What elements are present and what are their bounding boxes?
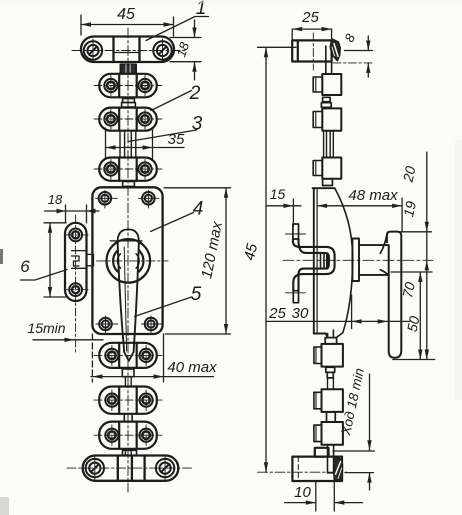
keeper plate: [65, 223, 87, 301]
guide block G4: [99, 343, 157, 368]
lock body plate: [92, 187, 162, 334]
svg-text:3: 3: [192, 114, 203, 135]
G1 centerline: [94, 76, 162, 96]
dimension 18 (top plate height): [170, 20, 201, 80]
G3 right screw: [138, 162, 151, 175]
top plate side view: [292, 40, 331, 61]
dimension 19 20 (handle height above axis): [397, 152, 432, 360]
dimension 18 (keeper width): [45, 192, 100, 223]
svg-text:20: 20: [399, 164, 418, 184]
bottom plate side centerline: [258, 471, 348, 473]
main horizontal centerline of pivot: [283, 259, 433, 261]
svg-text:18: 18: [48, 192, 63, 207]
keeper top screw: [69, 229, 82, 242]
G3 left screw: [104, 162, 117, 175]
connector body to B4: [325, 330, 336, 344]
body screw bottom-left: [96, 316, 118, 333]
dimension 40 max (body width): [91, 334, 217, 382]
rod hook at bottom (bent end): [334, 457, 343, 481]
keeper latch detail: [72, 251, 94, 269]
body screw top-left: [96, 191, 118, 209]
dimension 50 70 (handle length): [391, 272, 435, 360]
svg-text:45: 45: [241, 241, 261, 261]
guide block G3: [99, 158, 157, 181]
bottom plate left screw: [86, 457, 104, 480]
rod and nut above bottom plate: [123, 449, 137, 456]
G2 right screw: [138, 112, 151, 125]
handle boss circle: [107, 239, 151, 283]
keeper hook strip outer edge: [293, 239, 335, 291]
callout 2 leader: [151, 83, 201, 111]
body screw bottom-right: [142, 316, 162, 333]
dimension 35 (guide screw spacing): [106, 128, 185, 159]
dimension 45 (overall length, side view): [241, 47, 296, 472]
handle neck curl (top): [380, 235, 387, 254]
svg-text:10: 10: [294, 484, 311, 501]
guide block G1: [99, 74, 157, 98]
dimension 25 30 (handle offset): [267, 295, 411, 329]
handle grip tapering down: [118, 241, 139, 352]
top plate: [81, 37, 174, 63]
guide side block B5: [314, 389, 343, 412]
G6 right screw: [140, 429, 153, 442]
G6 left screw: [105, 429, 118, 442]
svg-text:4: 4: [193, 199, 204, 220]
rod hook at top (bent end): [330, 39, 340, 61]
bottom plate side view: [292, 448, 342, 481]
G1 right screw: [138, 79, 151, 92]
connector G3 to body: [123, 181, 135, 186]
top plate left screw: [84, 39, 102, 62]
connector B4-B5: [326, 367, 335, 389]
G4 right screw: [140, 349, 153, 362]
guide side block B6: [314, 422, 343, 445]
svg-text:18: 18: [173, 40, 192, 59]
keeper centerline: [66, 215, 88, 352]
swivel connector G1-G2: [122, 99, 136, 108]
G5 right screw: [140, 394, 153, 407]
guide side block B2: [313, 108, 341, 130]
callout 4 leader: [151, 199, 204, 232]
bottom plate: [83, 456, 179, 481]
body side bulge arc (handle sweep): [335, 188, 353, 337]
dimension 15 min: [27, 320, 103, 342]
G5 left screw: [105, 394, 118, 407]
guide block G2: [99, 108, 157, 131]
boss rosette left arc: [113, 250, 120, 271]
svg-text:8: 8: [341, 31, 358, 44]
svg-text:19: 19: [400, 199, 419, 218]
callout 6 leader: [20, 257, 67, 280]
G5 centerline: [94, 390, 162, 411]
handle bar side: [387, 232, 401, 358]
svg-text:25: 25: [268, 305, 286, 322]
top plate side centerline: [312, 33, 314, 70]
svg-text:35: 35: [168, 131, 185, 148]
connector G5-G6: [124, 414, 132, 422]
connector B5-B6: [327, 412, 336, 422]
rod into bottom plate: [328, 445, 334, 473]
handle knob dome: [110, 229, 142, 241]
svg-text:40 max: 40 max: [167, 359, 217, 376]
keeper hook strip inner edge: [299, 239, 329, 291]
connector G4-G5: [122, 369, 134, 387]
callout 1 leader: [146, 0, 209, 41]
boss rosette right arc: [136, 250, 143, 271]
handle pivot boss side: [352, 239, 359, 282]
guide side block B3: [313, 158, 341, 179]
G2 left screw: [104, 112, 117, 125]
body side plate: [313, 188, 335, 337]
handle arm side: [359, 245, 389, 275]
guide block G5: [99, 387, 157, 414]
G3 centerline: [94, 160, 162, 180]
svg-text:6: 6: [20, 257, 30, 276]
dimension 120 max (body length): [164, 188, 231, 334]
dimension 15 (keeper offset, side): [266, 186, 301, 226]
keeper height dimension (unlabelled): [44, 223, 66, 297]
rod below top plate side: [326, 46, 332, 74]
svg-text:2: 2: [189, 83, 201, 104]
svg-text:25: 25: [301, 9, 319, 26]
dimension 8 (hook offset): [333, 31, 374, 77]
dimension 48 max (projection): [317, 187, 402, 232]
G2 centerline: [94, 110, 162, 130]
rod end inside hook slot: [321, 254, 328, 269]
dimension 10 (hook offset bottom): [285, 481, 363, 511]
rod tube between G2 and G3: [120, 131, 136, 158]
rod tube between B2 and B3: [324, 131, 334, 158]
callout 3 leader: [129, 114, 203, 142]
keeper hook bottom pin: [286, 291, 306, 303]
handle neck fillet (bottom): [380, 270, 389, 276]
keeper bottom screw: [69, 283, 82, 296]
G1 left screw: [104, 79, 117, 92]
svg-text:15: 15: [270, 186, 286, 202]
G4 left screw: [105, 349, 118, 362]
callout 5 leader: [135, 284, 202, 317]
guide side block B4: [314, 344, 343, 367]
boss horizontal centerline: [97, 260, 169, 262]
top plate centerline: [72, 50, 185, 52]
top plate right screw: [153, 39, 171, 62]
keeper hook top pin: [286, 224, 306, 239]
dimension 45 (top plate width): [81, 6, 174, 36]
svg-text:15min: 15min: [27, 320, 65, 336]
body screw top-right: [139, 191, 160, 209]
bottom plate centerline: [67, 467, 193, 469]
vertical centerline of rod axis: [127, 28, 129, 492]
svg-text:120 max: 120 max: [198, 220, 226, 280]
guide side block B1: [313, 74, 341, 95]
G6 centerline: [94, 425, 162, 446]
handle grip inner line: [124, 247, 126, 351]
handle tip V: [124, 352, 133, 361]
dimension stroke 18 min: [333, 367, 375, 490]
svg-text:48 max: 48 max: [348, 187, 398, 204]
swivel connector below B1: [321, 97, 331, 107]
svg-text:30: 30: [292, 305, 309, 322]
svg-text:70: 70: [399, 280, 418, 299]
dimension 25 (side plate width): [292, 9, 331, 40]
svg-text:45: 45: [117, 6, 135, 23]
svg-text:5: 5: [191, 284, 202, 305]
guide block G6: [99, 422, 157, 449]
bottom plate right screw: [156, 457, 174, 480]
connector B3 to body: [323, 179, 333, 186]
rod ferrule below top plate: [121, 65, 137, 74]
G4 centerline: [94, 346, 162, 366]
